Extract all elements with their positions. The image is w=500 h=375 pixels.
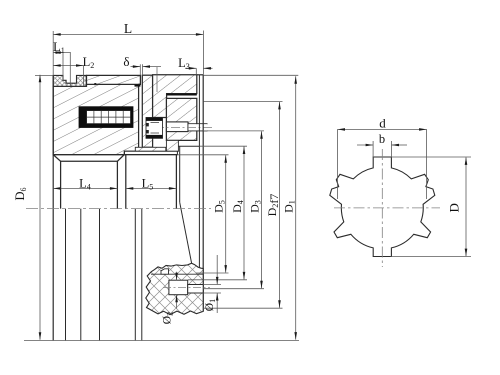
rotor top-right block [153, 75, 197, 118]
end view vertical centerline [381, 149, 383, 267]
narrow channel white fill [188, 124, 207, 130]
dimension delta (air gap) [139, 64, 141, 75]
slip ring housing (cross-hatched strip) [53, 75, 86, 86]
svg-text:b: b [379, 132, 385, 146]
svg-text:δ: δ [123, 54, 129, 69]
svg-text:d: d [379, 116, 386, 131]
svg-text:L: L [124, 21, 132, 36]
shaft channel (narrow, through rim) [188, 124, 208, 131]
coil yoke body (stator) [53, 84, 138, 154]
yoke top cover plate [87, 75, 141, 84]
dimension phi1 [203, 284, 221, 286]
hub L4 (front cylinder) [53, 155, 124, 209]
armature ring (right of air gap) [142, 75, 152, 147]
narrow bore (phi1) [188, 285, 204, 294]
hub L5 collar [125, 151, 178, 154]
bore centerline [163, 287, 210, 289]
dimension D2f7 [203, 101, 282, 103]
coil winding window with grid [87, 111, 131, 124]
dimension L3 [195, 68, 197, 75]
dimension L2 [83, 66, 85, 87]
coil (black frame) [79, 106, 134, 128]
dimension D5 [177, 154, 228, 156]
flange bottom line to rim [178, 145, 199, 147]
left outer edge full height [52, 75, 54, 340]
lower silhouette verticals [65, 209, 67, 341]
shaft channel (wide) [166, 122, 188, 132]
lower flange piece [166, 140, 178, 151]
dimension L5 [126, 187, 177, 189]
svg-text:D: D [447, 203, 462, 212]
dimension L4 [53, 187, 117, 189]
dimension L1 [69, 53, 71, 86]
main axis centerline [26, 208, 211, 210]
bottom bridge strip under air gap [135, 147, 166, 151]
broken-out section detail of shaft bores [146, 263, 203, 314]
dimension D4 [199, 145, 247, 147]
black bar under rotor block [167, 94, 197, 96]
dimension D3 [203, 130, 264, 132]
small shaft centerline [155, 127, 214, 129]
dark corner step under plate [94, 83, 96, 85]
hub L5 cylinder [125, 155, 178, 209]
dimension D (end view) [391, 156, 471, 158]
dimension D6 [35, 74, 53, 76]
big bore (phi2) [169, 280, 188, 295]
dimension L [52, 31, 54, 75]
dimension d (end view) [337, 129, 339, 199]
bearing / spline slot [146, 118, 163, 139]
bolt centerline in rotor block [156, 67, 158, 93]
dimension D1 [203, 74, 298, 76]
end view horizontal centerline [334, 207, 440, 209]
seam line below black bar [167, 97, 197, 99]
black seal bar at yoke/gap top [135, 84, 141, 86]
dimension phi2 [176, 272, 178, 280]
dimension b (end view) [372, 141, 374, 158]
pulley rim (right edge columns) [198, 75, 200, 268]
baseline (bottom extension) [24, 340, 299, 342]
keyway line in detail [151, 273, 203, 275]
rim inner sloped silhouette to detail [179, 146, 181, 202]
key block in detail [161, 269, 169, 274]
end view: castellated hub outline [330, 157, 435, 257]
rotor hub block (around shaft) [166, 98, 196, 140]
